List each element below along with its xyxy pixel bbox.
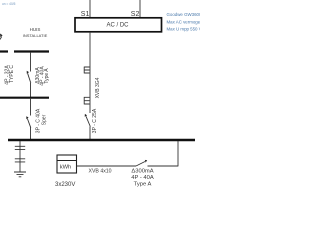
- bus secondary: [0, 97, 49, 99]
- svg-text:Goodwe GW3600D-NS: Goodwe GW3600D-NS: [167, 12, 201, 17]
- earth link 1: [15, 146, 25, 149]
- svg-text:4P - 40A: 4P - 40A: [131, 175, 154, 181]
- breaker house feed arrowhead (cut at edge): [0, 34, 3, 38]
- svg-text:un = 40/5: un = 40/5: [2, 2, 16, 6]
- main breaker Q0 arrowhead: [145, 160, 147, 163]
- svg-text:kWh: kWh: [60, 165, 72, 171]
- wire string S1: [89, 0, 91, 17]
- svg-text:Max U mpp 550 V: Max U mpp 550 V: [167, 27, 201, 32]
- breaker Q3 arrowhead: [85, 114, 87, 117]
- wire breaker to riser: [148, 165, 179, 167]
- cable marker (3 conductors) upper: [84, 67, 89, 74]
- differential Q2 blade: [28, 73, 31, 83]
- breaker Q3 3P-C25A blade: [86, 116, 90, 126]
- ground electrode: [14, 172, 26, 177]
- svg-text:S2: S2: [131, 11, 140, 18]
- wire meter to main breaker: [77, 165, 137, 167]
- svg-text:3x230V: 3x230V: [55, 182, 75, 188]
- wire differential feed upper: [30, 52, 32, 72]
- inverter U1 AC/DC box: [75, 18, 162, 32]
- svg-text:Type A: Type A: [44, 68, 50, 84]
- meter divider: [57, 160, 77, 162]
- bus house installation: [14, 50, 49, 52]
- svg-text:TYPE C: TYPE C: [9, 65, 15, 83]
- bus stub top-left: [0, 50, 8, 52]
- earth link 2: [15, 159, 25, 162]
- meter P1 kWh box: [57, 155, 77, 173]
- wire below breaker Q3: [89, 127, 91, 141]
- svg-text:Sper: Sper: [42, 114, 48, 125]
- svg-text:Type A: Type A: [134, 182, 152, 188]
- svg-text:Max AC vermogen 3680: Max AC vermogen 3680: [167, 19, 201, 24]
- wire inverter AC output: [89, 32, 91, 113]
- svg-text:XVB 3G4: XVB 3G4: [95, 77, 101, 98]
- wire main switch upper: [30, 98, 32, 116]
- switch Q1 arrowhead: [26, 116, 28, 119]
- svg-text:3P - C 40A: 3P - C 40A: [35, 108, 41, 133]
- switch Q1 Sper blade: [27, 119, 30, 128]
- cable marker (3 conductors) lower: [84, 97, 89, 105]
- wire riser to main bus: [177, 141, 179, 166]
- svg-text:INSTALLATIE: INSTALLATIE: [23, 33, 48, 38]
- earth conductor: [19, 141, 21, 172]
- svg-text:S1: S1: [81, 11, 90, 18]
- differential Q2 arrowhead: [27, 71, 29, 74]
- main breaker Q0 blade: [136, 162, 145, 167]
- svg-text:HUIS: HUIS: [30, 27, 41, 32]
- wire switch to main bus: [30, 128, 32, 141]
- svg-text:AC / DC: AC / DC: [106, 23, 129, 29]
- wire string S2: [139, 0, 141, 17]
- wire differential to bus: [30, 83, 32, 98]
- svg-text:XVB 4x10: XVB 4x10: [89, 169, 112, 175]
- main bus: [8, 139, 195, 141]
- svg-text:Δ300mA: Δ300mA: [131, 169, 153, 175]
- svg-text:3P - C 25A: 3P - C 25A: [92, 108, 98, 133]
